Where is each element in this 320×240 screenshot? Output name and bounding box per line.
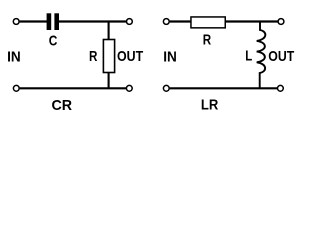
wire bottom [170, 87, 277, 89]
wire resistor top lead [108, 22, 110, 41]
svg-text:R: R [203, 33, 212, 49]
terminal bottom-left [163, 85, 169, 91]
wire [20, 20, 47, 22]
terminal bottom-right [126, 85, 132, 91]
wire [59, 20, 126, 22]
resistor R2 body [191, 17, 225, 28]
svg-text:OUT: OUT [117, 49, 143, 65]
resistor R1 body [103, 40, 114, 73]
wire resistor bottom lead [108, 73, 110, 89]
svg-text:C: C [49, 34, 58, 50]
svg-text:L: L [245, 48, 252, 64]
terminal in top-left [13, 19, 19, 25]
svg-text:IN: IN [7, 49, 21, 65]
svg-text:IN: IN [163, 49, 177, 65]
inductor L1 coil [257, 22, 266, 88]
terminal bottom-left [13, 85, 19, 91]
svg-text:CR: CR [52, 98, 73, 114]
terminal bottom-right [278, 85, 284, 91]
terminal in top-left [163, 19, 169, 25]
wire [226, 20, 278, 22]
capacitor C1 left plate [47, 13, 52, 30]
svg-text:LR: LR [201, 97, 219, 113]
capacitor C1 right plate [54, 13, 59, 30]
wire [170, 20, 191, 22]
terminal out top-right [126, 19, 132, 25]
svg-text:R: R [89, 49, 98, 65]
wire bottom [20, 87, 126, 89]
svg-text:OUT: OUT [268, 49, 294, 65]
terminal out top-right [278, 19, 284, 25]
